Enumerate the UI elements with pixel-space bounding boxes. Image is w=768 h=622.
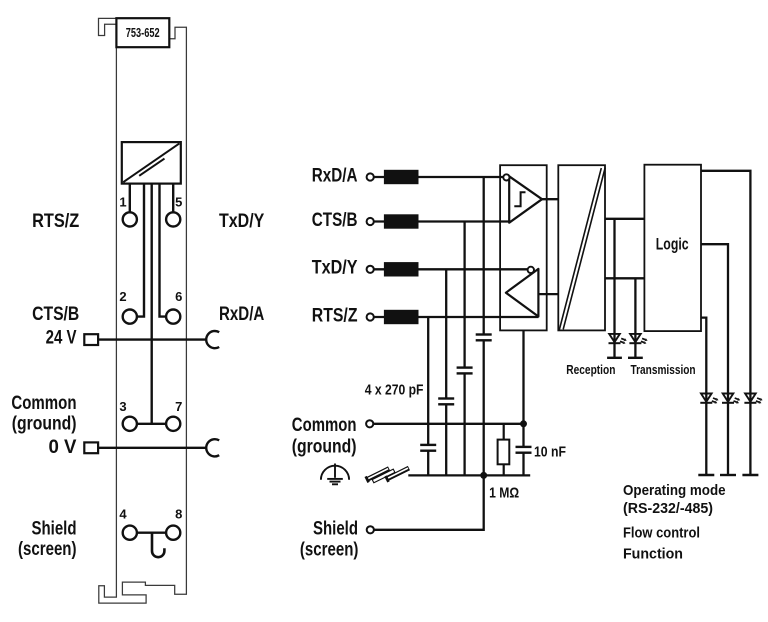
filter choke RxD/A — [384, 170, 419, 184]
svg-text:Shield: Shield — [313, 518, 358, 539]
LED D5 function — [742, 394, 762, 476]
capacitor C2 270pF — [438, 397, 454, 405]
svg-text:Flow control: Flow control — [623, 524, 700, 541]
wire lead pin1 — [129, 184, 131, 213]
shield hook on pins 4-8 — [152, 533, 164, 558]
svg-text:Operating mode: Operating mode — [623, 482, 726, 499]
node dot common/10nF — [520, 420, 527, 427]
wire RTS/Z — [374, 316, 539, 318]
wire center lead to pins 3/7 — [150, 184, 152, 424]
receiver/driver block U1 — [500, 165, 547, 330]
svg-text:(screen): (screen) — [18, 539, 77, 560]
pin 1 — [123, 212, 137, 226]
terminal Common — [366, 420, 373, 427]
pin 8 — [166, 526, 180, 540]
svg-text:1 MΩ: 1 MΩ — [489, 485, 519, 502]
0V power contact square — [84, 442, 98, 453]
label box 753-652 — [116, 18, 169, 47]
terminal Shield — [367, 526, 374, 533]
isolation symbol in module — [122, 142, 181, 184]
svg-text:RTS/Z: RTS/Z — [32, 211, 80, 232]
LED D1 reception — [607, 334, 627, 358]
0V pass-through contact arc — [206, 439, 219, 456]
driver input node circle — [528, 267, 534, 273]
wire CTS/B — [374, 220, 509, 222]
wire RxD/A — [374, 176, 504, 178]
wire isolation to logic upper — [605, 218, 644, 220]
svg-text:6: 6 — [175, 289, 182, 304]
comparator input node circle — [503, 174, 509, 180]
wire logic to LED D3 — [701, 318, 706, 475]
svg-text:Function: Function — [623, 546, 683, 563]
svg-text:Reception: Reception — [566, 362, 615, 377]
pin 4 — [123, 526, 137, 540]
svg-text:5: 5 — [175, 194, 182, 209]
svg-text:(screen): (screen) — [300, 539, 359, 560]
wire lead pin2 — [137, 184, 144, 317]
comparator A1 — [509, 176, 542, 222]
svg-text:CTS/B: CTS/B — [312, 210, 358, 231]
wire comparator output — [542, 198, 558, 200]
svg-text:4 x 270 pF: 4 x 270 pF — [365, 381, 424, 398]
terminal CTS/B — [367, 218, 374, 225]
svg-text:10 nF: 10 nF — [534, 444, 566, 461]
svg-text:Logic: Logic — [656, 234, 689, 253]
wire isolation to logic lower — [605, 277, 644, 279]
LED D2 transmission — [628, 334, 648, 358]
svg-text:RTS/Z: RTS/Z — [312, 305, 358, 326]
wire driver input — [538, 293, 558, 295]
driver A2 — [506, 269, 539, 317]
terminal RxD/A — [367, 173, 374, 180]
svg-text:2: 2 — [119, 289, 126, 304]
LED D3 operating mode — [698, 394, 718, 476]
svg-text:(ground): (ground) — [292, 437, 357, 458]
node dot shield/bus — [480, 472, 487, 479]
svg-text:(ground): (ground) — [12, 414, 77, 435]
24V pass-through contact arc — [206, 331, 219, 348]
capacitor C5 10nF — [516, 446, 532, 454]
filter choke RTS/Z — [384, 310, 419, 324]
wire 0V — [98, 447, 206, 449]
svg-text:8: 8 — [175, 507, 182, 522]
svg-text:7: 7 — [175, 399, 182, 414]
svg-text:Transmission: Transmission — [631, 362, 696, 377]
wire transmission LED drop — [634, 278, 636, 358]
svg-text:4: 4 — [119, 507, 127, 522]
wire TxD/Y — [374, 268, 528, 270]
wire U1 bottom to node — [522, 330, 524, 475]
svg-text:TxD/Y: TxD/Y — [312, 258, 358, 279]
svg-text:Common: Common — [292, 415, 357, 436]
filter choke CTS/B — [384, 214, 419, 228]
wire pins 4-8 bar — [137, 532, 166, 534]
terminal TxD/Y — [367, 266, 374, 273]
capacitor C1 270pF — [420, 444, 436, 452]
wire capacitor line TxD/Y — [445, 269, 447, 475]
svg-text:1: 1 — [119, 194, 126, 209]
svg-text:753-652: 753-652 — [126, 25, 160, 40]
pin 6 — [166, 310, 180, 324]
svg-text:TxD/Y: TxD/Y — [219, 211, 265, 232]
svg-text:0 V: 0 V — [49, 437, 77, 458]
earth symbol — [321, 464, 349, 485]
wire lead pin6 — [160, 184, 167, 317]
pin 2 — [123, 310, 137, 324]
24V power contact square — [84, 334, 98, 345]
pin 7 — [166, 417, 180, 431]
svg-text:Common: Common — [11, 393, 76, 414]
filter choke TxD/Y — [384, 262, 419, 276]
wire logic to LED D4 — [701, 244, 728, 475]
wire 24V — [98, 338, 206, 340]
wire capacitor line RxD/A — [483, 177, 485, 475]
capacitor C3 270pF — [457, 366, 473, 374]
svg-text:Shield: Shield — [32, 519, 77, 540]
ground bus wire — [408, 474, 530, 476]
module body outline — [99, 18, 187, 603]
logic block U3 — [644, 165, 701, 331]
pin 3 — [123, 417, 137, 431]
capacitor C4 270pF — [476, 333, 492, 341]
terminal RTS/Z — [367, 313, 374, 320]
wire lead pin5 — [172, 184, 174, 213]
wire capacitor line CTS/B — [463, 222, 465, 476]
svg-text:CTS/B: CTS/B — [32, 304, 79, 325]
wire pins 3-7 bar — [137, 423, 166, 425]
wire logic to LED D5 — [701, 171, 750, 475]
svg-text:RxD/A: RxD/A — [219, 304, 265, 325]
DIN rail symbol — [364, 458, 410, 491]
svg-text:3: 3 — [119, 399, 126, 414]
LED D4 flow control — [720, 394, 740, 476]
svg-text:(RS-232/-485): (RS-232/-485) — [623, 500, 713, 517]
wire Common — [373, 423, 523, 425]
svg-text:RxD/A: RxD/A — [312, 165, 358, 186]
isolation block U2 — [558, 165, 605, 330]
wire reception LED drop — [613, 219, 615, 358]
wire shield — [374, 475, 484, 529]
resistor R1 1M — [498, 424, 510, 476]
wire capacitor line RTS/Z — [427, 317, 429, 475]
pin 5 — [166, 212, 180, 226]
svg-text:24 V: 24 V — [46, 328, 77, 349]
